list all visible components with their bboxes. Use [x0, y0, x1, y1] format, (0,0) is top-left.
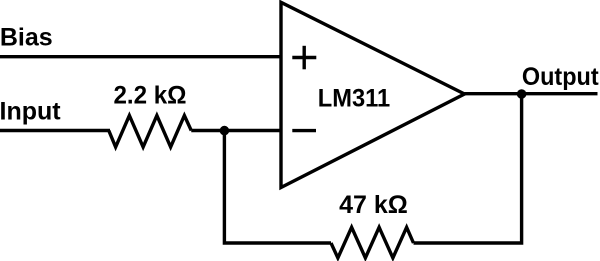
- svg-text:47 kΩ: 47 kΩ: [339, 191, 408, 219]
- wire feedback left leg down from inverting node: [224, 131, 331, 244]
- inverting input minus symbol: [292, 129, 316, 132]
- svg-text:Input: Input: [0, 98, 61, 126]
- svg-text:Bias: Bias: [0, 24, 53, 52]
- resistor R1 2.2 kOhm: [109, 116, 192, 148]
- junction node at output: [517, 89, 527, 99]
- svg-text:2.2 kΩ: 2.2 kΩ: [113, 82, 186, 110]
- wire Input to resistor R1: [0, 129, 110, 132]
- svg-text:LM311: LM311: [318, 84, 390, 112]
- svg-text:Output: Output: [522, 63, 599, 91]
- op-amp U1 LM311: [281, 2, 465, 187]
- resistor R2 47 kOhm: [331, 227, 414, 258]
- wire Bias to noninverting input: [0, 55, 282, 58]
- junction node at inverting input: [220, 126, 230, 136]
- wire output from op-amp apex: [465, 92, 598, 95]
- noninverting input plus symbol: [292, 46, 316, 70]
- wire R1 to inverting input: [191, 129, 282, 132]
- wire R2 to output right leg up: [414, 94, 522, 243]
